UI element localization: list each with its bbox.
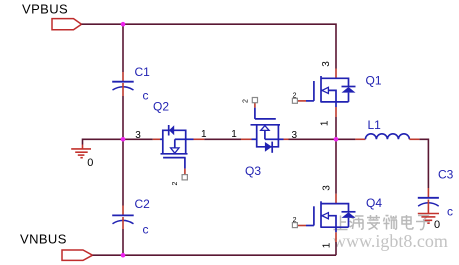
wire C2 bottom branch [122,229,124,255]
wire Q4 source to bottom bus [335,242,337,255]
transistor Q4 [292,185,355,249]
capacitor C2 [112,206,134,230]
wire C2 top branch [122,139,124,205]
Q2 body [161,125,188,169]
svg-text:Q2: Q2 [153,100,169,114]
transistor Q1 [292,61,355,126]
ground 0 right [418,207,439,223]
svg-text:C1: C1 [135,65,151,79]
Q2 body diode [169,125,174,135]
svg-text:3: 3 [292,130,298,141]
Q4 body diode [342,212,356,218]
Q4 pin 2 lead [297,225,306,227]
watermark chinese text 上海菱端电子 [334,215,431,230]
svg-text:VPBUS: VPBUS [22,2,68,17]
Q3 body [251,108,281,153]
Q1 body diode [342,87,356,93]
svg-text:C3: C3 [438,167,454,181]
Q1 pin 1 lead [335,102,337,107]
Q1 pin 3 lead [335,69,337,79]
svg-text:2: 2 [293,92,297,99]
svg-text:3: 3 [322,185,333,191]
wire C1 top branch [122,24,124,72]
wire Q3 to mid junction [289,138,337,140]
Q2 pin 2 terminal square [182,175,187,180]
port VNBUS [62,250,93,260]
Q3 pin 2 terminal square [252,98,257,103]
wire L1 to C3 [419,139,428,188]
svg-text:1: 1 [320,120,331,126]
transistor Q3 [231,98,297,153]
Q3 body diode [265,142,272,152]
svg-text:2: 2 [293,217,297,224]
svg-text:Q3: Q3 [245,164,261,178]
transistor Q2 [135,125,207,185]
Q3 pin 1 lead [241,138,252,140]
junction node at Q1 Q4 L1 [334,137,339,142]
wire top bus [82,24,337,68]
svg-text:C2: C2 [135,197,151,211]
junction node at mid bus C1 C2 [121,137,126,142]
svg-text:1: 1 [231,129,237,140]
wire Q2 to Q3 [204,138,241,140]
wire mid bus left [83,139,153,144]
wire Q1 source to junction [335,117,337,139]
svg-text:c: c [143,223,149,237]
wire bottom bus [93,254,337,256]
svg-text:3: 3 [321,61,332,67]
svg-text:c: c [143,89,149,103]
wire junction to Q4 drain [335,139,337,194]
port VPBUS [52,19,82,30]
svg-text:www.igbt8.com: www.igbt8.com [333,231,448,251]
svg-text:L1: L1 [368,118,382,132]
svg-text:1: 1 [322,242,333,248]
Q4 pin 3 lead [335,194,337,204]
Q4 body [306,201,356,228]
wire C1 bottom to mid bus [122,96,124,139]
Q3 pin 3 lead [278,138,283,140]
svg-text:2: 2 [172,181,179,185]
junction node at VNBUS C2 [121,253,126,258]
inductor L1 [355,134,419,140]
Q4 substrate arrow [322,213,328,219]
Q2 substrate arrow [171,148,179,153]
svg-text:0: 0 [434,219,440,231]
svg-text:0: 0 [87,157,93,169]
capacitor C1 [112,72,134,96]
junction node at VPBUS C1 [121,22,126,27]
Q2 pin 2 lead [184,169,186,175]
Q1 body [306,76,356,103]
wire junction to L1 [336,138,355,140]
svg-text:VNBUS: VNBUS [20,231,67,246]
Q4 pin 1 lead [335,227,337,232]
capacitor C3 [418,188,439,207]
svg-text:2: 2 [243,99,250,103]
Q1 pin 2 lead [297,100,306,102]
svg-text:c: c [447,204,453,218]
Q4 pin 2 terminal square [292,223,297,228]
Q3 substrate arrow [261,126,269,131]
Q1 substrate arrow [322,87,328,93]
svg-text:Q1: Q1 [366,74,382,88]
ground 0 left [71,145,91,158]
Q2 pin 1 lead [186,138,194,140]
svg-text:3: 3 [135,130,141,141]
Q2 pin 3 lead [153,138,160,140]
Q3 pin 2 lead [254,103,256,108]
svg-text:1: 1 [201,129,207,140]
Q1 pin 2 terminal square [292,98,297,103]
svg-text:Q4: Q4 [366,196,382,210]
